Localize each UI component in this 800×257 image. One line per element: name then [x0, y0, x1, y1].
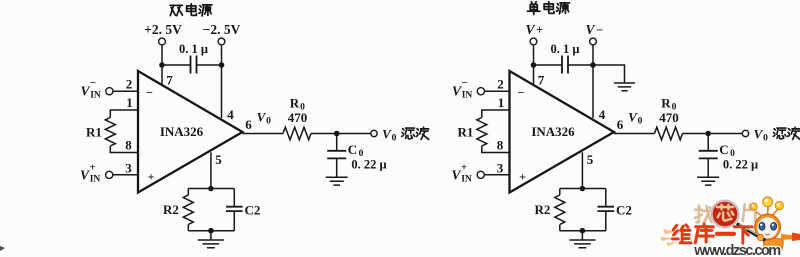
- svg-text:C2: C2: [616, 203, 632, 218]
- ground (V- rail): [614, 83, 635, 91]
- capacitor C2 b: [605, 189, 607, 231]
- svg-text:V: V: [585, 22, 595, 37]
- svg-text:2: 2: [497, 77, 504, 92]
- svg-text:www.dzsc.com: www.dzsc.com: [693, 243, 780, 257]
- svg-text:470: 470: [659, 110, 679, 125]
- watermark char zhao (find): [695, 206, 712, 223]
- svg-text:0: 0: [392, 134, 397, 144]
- wire pin 3: [485, 174, 510, 176]
- wire pin 2: [485, 90, 510, 92]
- output terminal V0 a: [371, 130, 377, 136]
- svg-text:−2. 5V: −2. 5V: [203, 22, 241, 37]
- wire pin 7: [533, 65, 535, 85]
- wire output: [311, 133, 371, 135]
- capacitor C0 0.22u b: [707, 134, 709, 178]
- svg-text:7: 7: [166, 73, 173, 88]
- svg-text:V: V: [525, 22, 535, 37]
- node feedback/ground: [208, 228, 214, 234]
- svg-text:−: −: [90, 77, 96, 89]
- svg-text:+2. 5V: +2. 5V: [144, 22, 182, 37]
- wire to ground: [581, 231, 583, 240]
- wire pin 7: [161, 65, 163, 85]
- label V0 (pin6): [257, 110, 271, 127]
- svg-text:R: R: [290, 96, 300, 111]
- ground (output filter) b: [697, 177, 719, 185]
- svg-text:−: −: [461, 77, 467, 89]
- svg-text:1: 1: [126, 95, 133, 110]
- resistor R0 470 b: [655, 127, 683, 140]
- wire pin 4: [592, 65, 594, 118]
- watermark magnifier with char xin (chip): [711, 200, 738, 227]
- svg-text:IN: IN: [462, 91, 473, 101]
- label V0 filtered output a: [382, 127, 396, 144]
- wire output: [683, 133, 743, 135]
- svg-text:R1: R1: [86, 125, 102, 140]
- ground (output filter) a: [326, 177, 348, 185]
- wire: [221, 45, 223, 65]
- svg-text:R2: R2: [163, 202, 179, 217]
- svg-text:5: 5: [587, 152, 594, 167]
- wire: [592, 45, 594, 65]
- svg-text:R: R: [661, 96, 671, 111]
- svg-text:0: 0: [638, 117, 643, 127]
- label R0: [290, 96, 305, 113]
- node supply+ / pin7 b: [531, 62, 537, 68]
- wire to ground: [210, 231, 212, 240]
- resistor R1 a: [105, 118, 115, 147]
- watermark text: wei ku yi xia (dzsc slogan): [672, 225, 691, 243]
- wire: [533, 45, 535, 65]
- wire pin 4: [221, 65, 223, 118]
- input terminal Vin+ a: [106, 171, 113, 178]
- input terminal Vin- a: [106, 88, 113, 95]
- wire pin 6 output: [243, 133, 284, 135]
- node output filter a: [334, 131, 340, 137]
- svg-text:0. 1 μ: 0. 1 μ: [179, 42, 208, 56]
- input terminal Vin+ b: [477, 171, 484, 178]
- svg-text:−: −: [146, 86, 153, 100]
- svg-text:0. 22 μ: 0. 22 μ: [351, 158, 386, 172]
- capacitor 0.1u bypass a: [162, 64, 222, 66]
- watermark char pian (piece): [743, 204, 756, 221]
- wire pin 8: [110, 146, 138, 153]
- node supply- / pin4 a: [219, 62, 225, 68]
- svg-text:8: 8: [497, 138, 504, 153]
- svg-text:R1: R1: [458, 125, 474, 140]
- node supply+ / pin7 a: [159, 62, 165, 68]
- svg-text:6: 6: [617, 117, 624, 132]
- watermark: zhao-xin-pian logo: [660, 229, 677, 246]
- svg-text:6: 6: [245, 117, 252, 132]
- svg-text:+: +: [519, 170, 526, 184]
- wire feedback loop top: [560, 188, 606, 190]
- svg-text:8: 8: [125, 138, 132, 153]
- capacitor 0.1u bypass b: [534, 64, 594, 66]
- wire pin 6 output: [614, 133, 655, 135]
- svg-text:470: 470: [288, 110, 308, 125]
- svg-text:3: 3: [125, 161, 132, 176]
- svg-text:R2: R2: [535, 202, 551, 217]
- label Vin- b: [452, 77, 472, 101]
- wire pin 2: [113, 90, 138, 92]
- node feedback/ground: [580, 228, 586, 234]
- terminal V- supply b: [590, 38, 597, 45]
- watermark mascot (dzsc robot): [738, 197, 800, 254]
- label V0 filtered output b: [754, 127, 768, 144]
- svg-text:C2: C2: [245, 203, 261, 218]
- op-amp INA326 b: [510, 71, 615, 193]
- svg-text:1: 1: [498, 95, 505, 110]
- title: dual supply (shuang dian yuan): [170, 5, 182, 15]
- svg-text:+: +: [536, 23, 543, 37]
- svg-text:4: 4: [227, 107, 234, 122]
- ground (feedback) b: [569, 240, 595, 248]
- svg-text:0. 22 μ: 0. 22 μ: [723, 158, 758, 172]
- wire to ground (V-): [593, 65, 625, 83]
- wire: [161, 45, 163, 65]
- svg-text:IN: IN: [90, 91, 101, 101]
- svg-text:5: 5: [215, 152, 222, 167]
- label Vin+ b: [451, 162, 471, 185]
- svg-text:C: C: [719, 142, 728, 157]
- svg-text:0: 0: [266, 117, 271, 127]
- terminal V+ supply b: [530, 38, 537, 45]
- input terminal Vin- b: [477, 88, 484, 95]
- node output filter b: [705, 131, 711, 137]
- title: single supply (dan dian yuan): [528, 2, 540, 15]
- capacitor C0 0.22u a: [336, 134, 338, 178]
- svg-text:2: 2: [126, 77, 133, 92]
- label V0 (pin6): [628, 110, 642, 127]
- label R0: [661, 96, 676, 113]
- node supply- / pin4 b: [590, 62, 596, 68]
- svg-text:−: −: [518, 86, 525, 100]
- svg-text:4: 4: [599, 107, 606, 122]
- resistor R2 a: [187, 189, 189, 196]
- label Vin- a: [80, 77, 100, 101]
- terminal V- supply a: [218, 38, 225, 45]
- svg-text:+: +: [148, 170, 155, 184]
- svg-text:IN: IN: [461, 175, 472, 185]
- svg-text:7: 7: [538, 73, 545, 88]
- svg-text:0: 0: [763, 134, 768, 144]
- capacitor C2 a: [233, 189, 235, 231]
- label Vin+ a: [80, 162, 100, 185]
- svg-text:0. 1 μ: 0. 1 μ: [551, 42, 580, 56]
- wire pin 5: [210, 152, 212, 188]
- label C0: [348, 142, 364, 159]
- svg-text:INA326: INA326: [160, 124, 204, 139]
- svg-text:3: 3: [497, 161, 504, 176]
- wire feedback loop bottom: [188, 230, 234, 232]
- node pin5/feedback: [208, 186, 214, 192]
- svg-text:−: −: [596, 23, 603, 37]
- svg-text:INA326: INA326: [531, 124, 575, 139]
- resistor R2 b: [559, 189, 561, 196]
- wire pin 5: [581, 152, 583, 188]
- label V+ supply: [525, 22, 543, 37]
- wire feedback loop bottom: [560, 230, 606, 232]
- label V- supply: [585, 22, 603, 37]
- svg-text:IN: IN: [90, 175, 101, 185]
- svg-text:C: C: [348, 142, 357, 157]
- wire pin 1: [482, 110, 510, 118]
- terminal V+ supply a: [159, 38, 166, 45]
- svg-text:+: +: [89, 162, 95, 174]
- ground (feedback) a: [198, 240, 224, 248]
- op-amp INA326 a: [138, 71, 243, 193]
- scan mark bottom-left: [0, 246, 5, 251]
- wire pin 3: [113, 174, 138, 176]
- node pin5/feedback: [580, 186, 586, 192]
- svg-text:+: +: [461, 162, 467, 174]
- resistor R0 470 a: [283, 127, 311, 140]
- wire pin 8: [482, 146, 510, 153]
- wire pin 1: [110, 110, 138, 118]
- output terminal V0 b: [742, 130, 748, 136]
- label C0: [719, 142, 735, 159]
- wire feedback loop top: [188, 188, 234, 190]
- resistor R1 b: [477, 118, 487, 147]
